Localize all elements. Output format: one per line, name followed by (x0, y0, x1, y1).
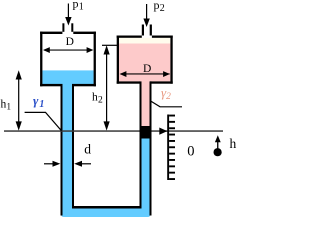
svg-text:0: 0 (187, 144, 194, 160)
svg-text:p2: p2 (154, 0, 165, 14)
svg-text:D: D (66, 36, 74, 48)
svg-text:p1: p1 (73, 0, 84, 12)
svg-text:h: h (230, 136, 237, 151)
svg-text:d: d (84, 142, 91, 157)
svg-text:D: D (143, 63, 151, 75)
